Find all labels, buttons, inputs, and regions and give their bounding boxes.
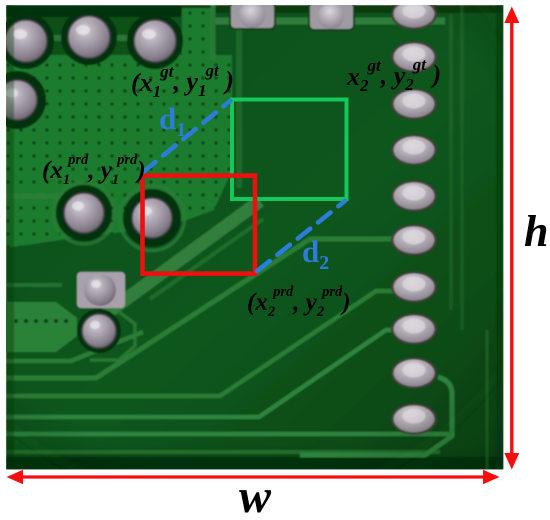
svg-text:w: w xyxy=(239,470,272,520)
svg-text:h: h xyxy=(524,207,548,256)
